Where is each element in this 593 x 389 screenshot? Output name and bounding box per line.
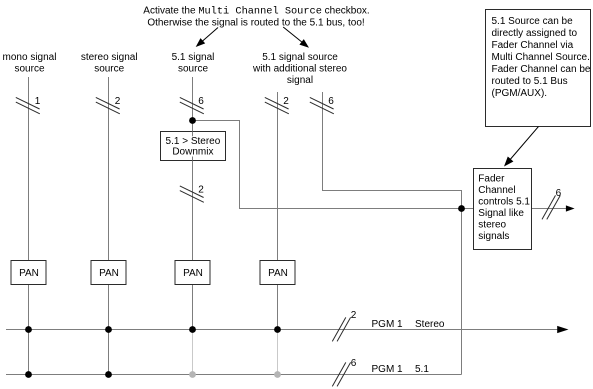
svg-text:signal: signal (287, 75, 313, 86)
svg-text:5.1 Source can be: 5.1 Source can be (492, 16, 574, 27)
svg-text:stereo: stereo (478, 220, 506, 231)
svg-text:PGM 1: PGM 1 (372, 364, 404, 375)
svg-text:2: 2 (115, 96, 121, 107)
svg-text:PAN: PAN (268, 268, 288, 279)
svg-text:Fader Channel via: Fader Channel via (492, 40, 574, 51)
svg-text:1: 1 (35, 96, 41, 107)
svg-text:5.1 signal source: 5.1 signal source (262, 52, 338, 63)
svg-text:signals: signals (478, 231, 509, 242)
svg-text:source: source (94, 64, 124, 75)
svg-text:Signal like: Signal like (478, 208, 524, 219)
svg-text:6: 6 (328, 96, 334, 107)
svg-text:source: source (14, 64, 44, 75)
svg-text:stereo signal: stereo signal (81, 52, 138, 63)
svg-text:2: 2 (283, 96, 289, 107)
svg-text:mono signal: mono signal (3, 52, 57, 63)
svg-text:(PGM/AUX).: (PGM/AUX). (492, 88, 548, 99)
svg-text:PAN: PAN (183, 268, 203, 279)
svg-text:Stereo: Stereo (415, 319, 445, 330)
svg-text:routed to 5.1 Bus: routed to 5.1 Bus (492, 76, 568, 87)
svg-text:directly assigned to: directly assigned to (492, 28, 578, 39)
svg-text:2: 2 (198, 184, 204, 195)
svg-text:Multi Channel Source.: Multi Channel Source. (492, 52, 590, 63)
svg-text:Channel: Channel (478, 185, 515, 196)
svg-text:Otherwise the signal is routed: Otherwise the signal is routed to the 5.… (147, 17, 364, 28)
svg-text:5.1: 5.1 (415, 364, 429, 375)
svg-text:2: 2 (351, 310, 357, 321)
svg-text:Fader Channel can be: Fader Channel can be (492, 64, 591, 75)
svg-text:with additional stereo: with additional stereo (252, 64, 347, 75)
svg-text:PAN: PAN (19, 268, 39, 279)
svg-text:6: 6 (351, 358, 357, 369)
svg-text:Fader: Fader (478, 173, 505, 184)
svg-text:Downmix: Downmix (172, 147, 213, 158)
svg-text:PAN: PAN (99, 268, 119, 279)
svg-text:6: 6 (556, 188, 562, 199)
svg-text:PGM 1: PGM 1 (372, 319, 404, 330)
svg-text:Activate the Multi Channel Sou: Activate the Multi Channel Source checkb… (143, 5, 369, 17)
svg-text:6: 6 (198, 96, 204, 107)
svg-text:5.1 signal: 5.1 signal (172, 52, 215, 63)
svg-text:5.1 > Stereo: 5.1 > Stereo (166, 136, 221, 147)
svg-text:controls 5.1: controls 5.1 (478, 196, 530, 207)
svg-text:source: source (178, 64, 208, 75)
